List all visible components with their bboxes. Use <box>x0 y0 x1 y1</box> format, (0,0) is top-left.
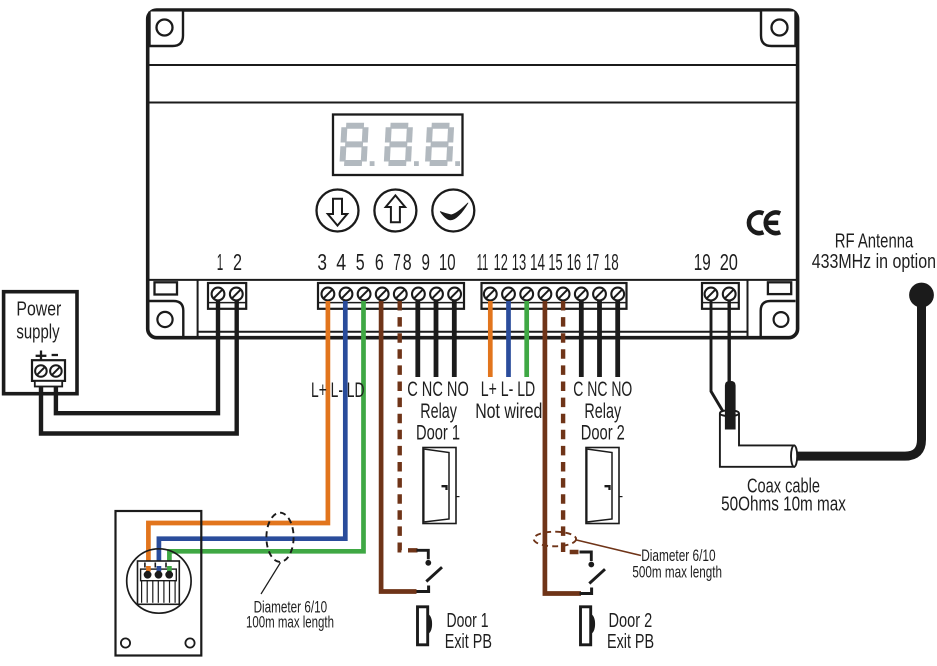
svg-text:Door 1: Door 1 <box>416 422 460 445</box>
svg-text:7: 7 <box>393 249 401 275</box>
reader circle <box>127 549 191 613</box>
controller main box <box>148 10 798 338</box>
bottom-right notch <box>768 282 791 294</box>
svg-text:3: 3 <box>317 249 327 275</box>
reader box <box>116 511 202 656</box>
wire terminal 19 to coax shield <box>711 301 724 413</box>
svg-text:5: 5 <box>356 249 365 275</box>
svg-text:18: 18 <box>604 249 619 275</box>
button up <box>374 190 416 232</box>
svg-text:2: 2 <box>233 249 242 275</box>
bottom-left mounting tab <box>150 301 184 336</box>
antenna ball <box>909 283 934 308</box>
CE mark <box>749 212 764 233</box>
terminal block 1-2 <box>208 283 246 309</box>
svg-text:15: 15 <box>548 249 562 275</box>
svg-text:Power: Power <box>16 298 61 321</box>
svg-text:Door 2: Door 2 <box>581 422 625 445</box>
button validate (check) <box>432 190 474 232</box>
door 1 icon <box>423 448 456 524</box>
panel line upper <box>147 64 797 66</box>
svg-text:Door 1: Door 1 <box>447 609 489 632</box>
panel line lower <box>147 102 797 104</box>
wire NC terminal 9 stub <box>434 301 439 377</box>
svg-text:C NC NO: C NC NO <box>573 378 632 401</box>
svg-text:19: 19 <box>694 249 711 275</box>
svg-text:10: 10 <box>439 249 456 275</box>
wire power - to terminal 1 <box>56 301 218 413</box>
coax tube outline <box>720 413 794 467</box>
leader line reader bundle <box>261 563 281 595</box>
svg-text:C NC NO: C NC NO <box>407 378 469 401</box>
reader mounting holes <box>121 638 130 647</box>
terminal block 19-20 <box>702 283 739 309</box>
screw terminals 3-10 <box>322 288 335 301</box>
svg-text:20: 20 <box>720 249 738 275</box>
strip left separator <box>197 280 199 337</box>
screw terminals 19-20 <box>705 288 718 301</box>
wire L+ orange terminal 3 to reader <box>148 301 328 571</box>
svg-text:L+ L- LD: L+ L- LD <box>481 378 535 401</box>
leader line door2 pair <box>577 540 642 556</box>
screw terminals 11-18 <box>484 288 497 301</box>
wire C terminal 16 stub <box>579 301 584 377</box>
wire brown dashed terminal 15 to door2 exit PB <box>563 301 578 552</box>
svg-text:9: 9 <box>422 249 430 275</box>
svg-text:Exit PB: Exit PB <box>607 630 654 653</box>
wire NO terminal 18 stub <box>615 301 620 377</box>
svg-text:Not wired: Not wired <box>475 400 542 423</box>
bottom-left notch <box>155 282 178 294</box>
svg-text:13: 13 <box>512 249 526 275</box>
antenna cable <box>793 295 922 456</box>
door 2 exit PB switch <box>580 552 592 561</box>
display digit 1 <box>342 126 365 163</box>
wire L+ orange terminal 11 stub <box>488 301 493 377</box>
wire terminal 20 to coax core <box>728 301 731 384</box>
coax tube mouth <box>720 410 739 416</box>
minus symbol <box>52 354 58 356</box>
door 1 exit PB switch <box>417 550 429 559</box>
wire NO terminal 10 stub <box>452 301 457 377</box>
svg-text:6: 6 <box>375 249 384 275</box>
svg-text:Relay: Relay <box>420 400 457 423</box>
bottom-right mounting tab <box>761 301 796 336</box>
svg-text:50Ohms 10m max: 50Ohms 10m max <box>721 493 846 516</box>
wire brown dashed terminal 7 to door1 exit PB <box>400 301 418 550</box>
svg-text:4: 4 <box>336 249 346 275</box>
svg-text:16: 16 <box>567 249 582 275</box>
svg-text:Exit PB: Exit PB <box>445 630 492 653</box>
wire LD green terminal 13 stub <box>524 301 529 377</box>
wire L- blue terminal 4 to reader <box>159 301 345 571</box>
svg-text:supply: supply <box>16 321 60 344</box>
svg-text:100m max length: 100m max length <box>246 614 334 632</box>
7-segment display U1 <box>333 115 463 176</box>
reader comb hatching <box>141 581 143 603</box>
svg-text:12: 12 <box>494 249 508 275</box>
reader terminal block <box>138 561 180 604</box>
svg-text:500m max length: 500m max length <box>632 563 722 581</box>
strip right separator <box>747 280 749 337</box>
wire brown terminal 6 to door1 exit PB <box>381 301 416 592</box>
top-left mounting tab <box>150 12 184 47</box>
svg-text:14: 14 <box>530 249 545 275</box>
svg-text:Relay: Relay <box>584 400 621 423</box>
wire power + to terminal 2 <box>41 301 237 434</box>
top-right mounting tab <box>761 12 796 47</box>
svg-text:1: 1 <box>217 249 224 275</box>
strip inner bottom line <box>198 331 748 333</box>
wire LD green terminal 5 to reader <box>169 301 363 571</box>
svg-text:433MHz in option: 433MHz in option <box>812 250 936 273</box>
display digit 3 <box>428 126 451 163</box>
svg-text:L+ L- LD: L+ L- LD <box>311 379 365 402</box>
button down <box>317 190 359 232</box>
wire NC terminal 17 stub <box>597 301 602 377</box>
exit PB icon door 1 <box>418 607 428 645</box>
svg-text:11: 11 <box>477 249 489 275</box>
svg-text:17: 17 <box>586 249 599 275</box>
plus symbol <box>36 355 47 357</box>
terminal block 3-10 <box>318 283 464 309</box>
power supply box <box>4 292 77 394</box>
cable marker ellipse reader bundle <box>266 513 293 562</box>
reader dots row <box>141 569 177 581</box>
exit PB icon door 2 <box>581 607 591 645</box>
svg-text:Diameter 6/10: Diameter 6/10 <box>641 547 715 565</box>
power supply terminal block <box>32 360 65 381</box>
screw terminals 1-2 <box>212 288 225 301</box>
terminal block 11-18 <box>482 283 627 309</box>
coax inner conductor <box>725 381 736 430</box>
cable marker ellipse door2 pair <box>534 532 576 547</box>
door 2 icon <box>586 448 619 524</box>
svg-text:Door 2: Door 2 <box>609 609 653 632</box>
terminal strip top line <box>147 279 797 281</box>
wire L- blue terminal 12 stub <box>506 301 511 377</box>
svg-text:8: 8 <box>403 249 412 275</box>
wire C terminal 8 stub <box>415 301 420 377</box>
reader wire stubs into block <box>146 566 151 572</box>
display digit 2 <box>387 126 410 163</box>
coax tube end cap <box>791 445 797 466</box>
wire brown terminal 14 to door2 exit PB <box>545 301 581 594</box>
